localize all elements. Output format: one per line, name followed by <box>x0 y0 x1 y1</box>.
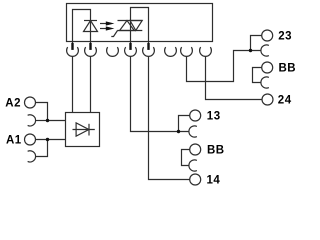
junction A1 <box>46 138 49 141</box>
junction 23 <box>249 49 252 52</box>
wire socket7 to terminal 23 net <box>187 51 261 82</box>
wire BB top bridge <box>253 68 262 83</box>
terminal 14 circle <box>190 174 201 185</box>
socket contact 4 <box>125 47 137 56</box>
wire socket1 to diode box <box>72 56 74 112</box>
triac V1 <box>111 21 142 44</box>
wire socket8 to terminal 24 <box>206 56 263 99</box>
wire LED cathode loop <box>73 10 91 44</box>
plug pin 4 <box>147 43 149 50</box>
svg-text:14: 14 <box>207 174 221 186</box>
diode box <box>66 113 100 147</box>
socket contact 2 <box>85 47 97 56</box>
terminal 24 circle <box>262 94 273 105</box>
wire A2 circle to junction <box>36 103 48 121</box>
socket contact 8 <box>200 47 212 56</box>
LED D1 <box>84 21 98 44</box>
plug pin 3 <box>129 43 131 50</box>
svg-text:24: 24 <box>278 94 292 106</box>
socket contact 3 <box>107 47 119 56</box>
wire socket2 to diode box <box>90 56 92 112</box>
relay module box <box>67 4 213 42</box>
socket contact 1 <box>67 47 79 56</box>
svg-text:BB: BB <box>207 144 225 156</box>
socket contact 6 <box>165 47 177 56</box>
optocoupler arrow lower <box>100 26 114 30</box>
svg-text:A2: A2 <box>5 97 21 109</box>
terminal 13 circle <box>190 110 201 121</box>
wire triac top loop <box>131 8 149 44</box>
svg-text:13: 13 <box>207 110 221 122</box>
wire socket5 to terminal 14 <box>149 56 190 179</box>
terminal BB bottom circle <box>190 144 201 155</box>
wire 13 circle to junction <box>179 116 190 132</box>
wire A2 junction to diode box <box>48 120 66 122</box>
junction A2 <box>46 119 49 122</box>
terminal 23 arc <box>261 45 269 56</box>
plug pin 2 <box>89 43 91 50</box>
optocoupler arrow upper <box>100 21 114 25</box>
terminal A1 circle <box>25 134 36 145</box>
terminal A2 circle <box>25 97 36 108</box>
socket contact 7 <box>181 47 193 56</box>
plug pin 1 <box>71 43 73 50</box>
wire 23 circle to junction <box>251 36 262 51</box>
wire A2 arc to junction <box>36 120 48 122</box>
wire A1 circle to diode box <box>36 139 66 141</box>
terminal BB top circle <box>262 62 273 73</box>
diode D2 <box>73 123 95 136</box>
terminal 23 circle <box>262 30 273 41</box>
svg-text:BB: BB <box>279 62 297 74</box>
terminal A2 arc <box>28 115 36 126</box>
terminal BB bottom arc <box>189 160 197 171</box>
terminal A1 arc <box>28 151 36 162</box>
terminal 13 arc <box>189 126 197 137</box>
wire socket4 to terminal 13 net <box>131 56 190 131</box>
svg-text:A1: A1 <box>6 134 22 146</box>
wire A1 arc to junction <box>36 140 48 157</box>
wire BB bottom bridge <box>182 150 190 166</box>
svg-text:23: 23 <box>278 30 292 42</box>
terminal BB top arc <box>261 77 269 88</box>
junction 13 <box>177 130 180 133</box>
socket contact 5 <box>143 47 155 56</box>
